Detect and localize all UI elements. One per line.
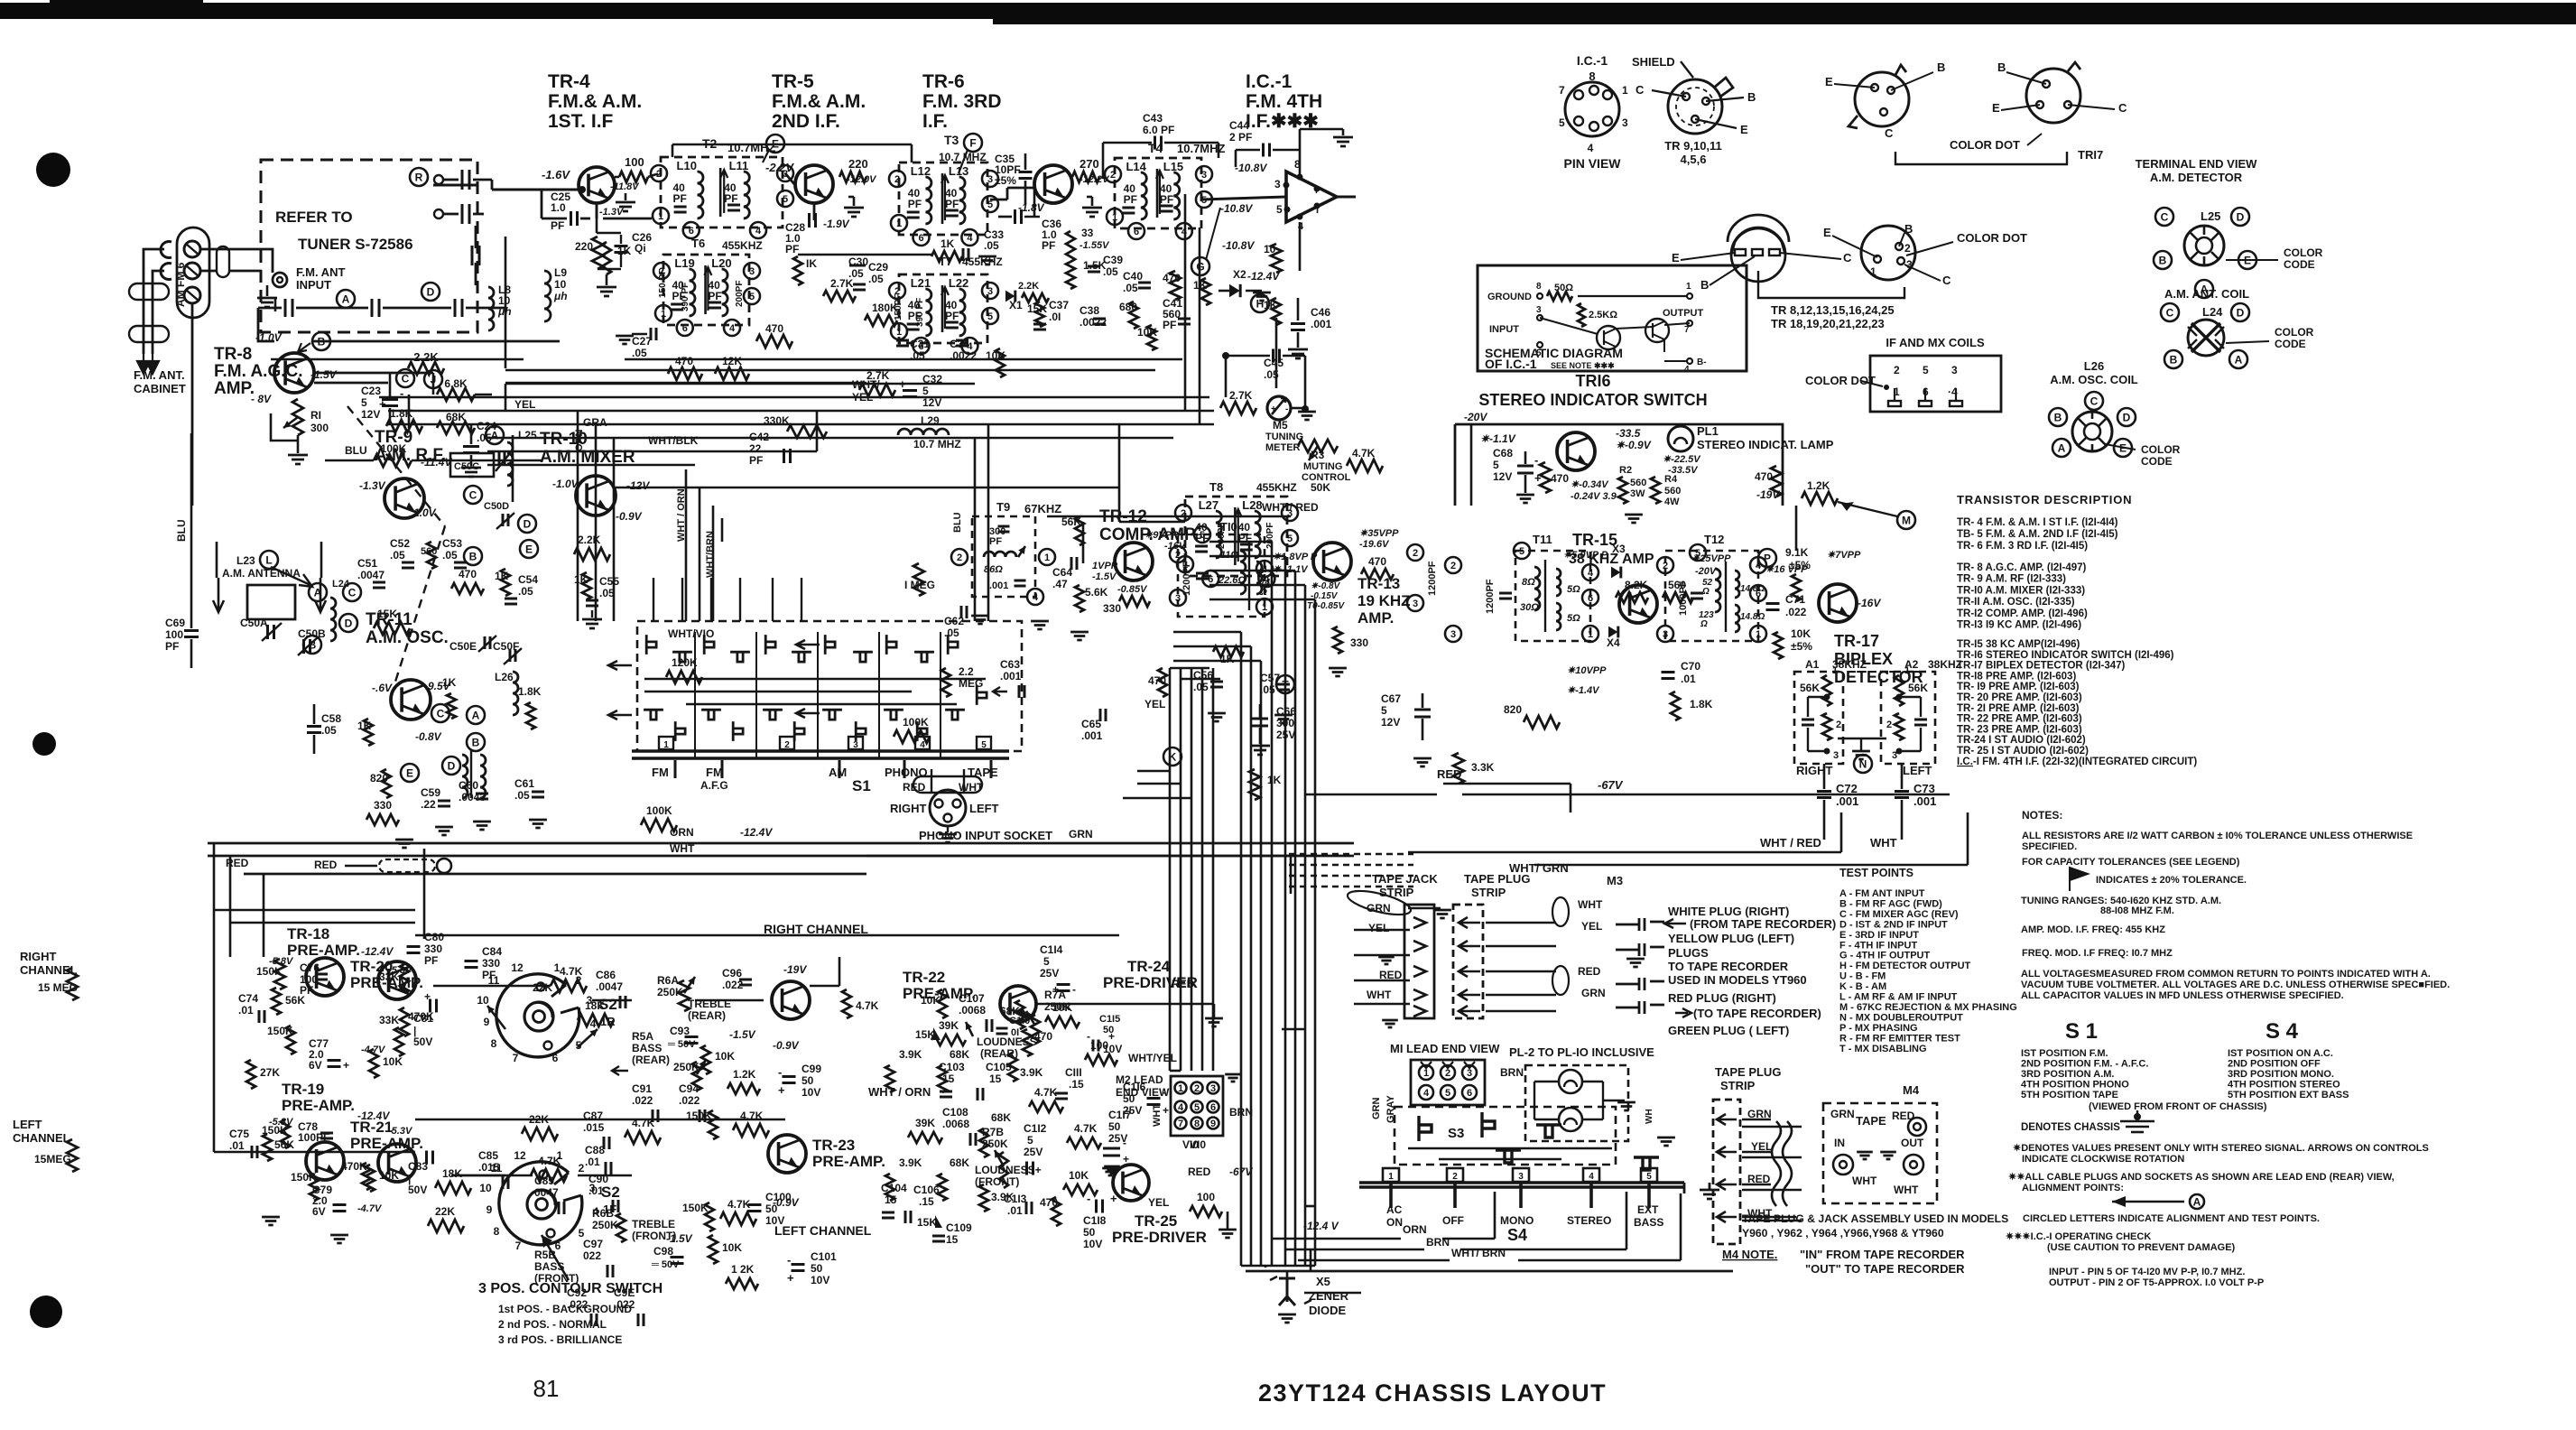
svg-text:COLOR: COLOR <box>2284 246 2323 259</box>
svg-text:COLOR DOT: COLOR DOT <box>1805 374 1876 387</box>
svg-text:✷-0.9V: ✷-0.9V <box>1616 439 1652 451</box>
chassis symbol <box>2134 1113 2141 1120</box>
svg-text:COLOR: COLOR <box>2275 326 2314 339</box>
svg-text:4: 4 <box>1684 365 1690 375</box>
strip2 wires <box>1742 1119 1771 1120</box>
svg-text:✷10VPP: ✷10VPP <box>1567 665 1607 676</box>
svg-text:CODE: CODE <box>2141 455 2173 468</box>
svg-text:CABINET: CABINET <box>134 382 186 395</box>
svg-text:TR-I7 BIPLEX DETECTOR (I2I-3: TR-I7 BIPLEX DETECTOR (I2I-347) <box>1957 661 2126 672</box>
IC1 box pin4 <box>1687 358 1692 364</box>
svg-text:S 1: S 1 <box>2065 1019 2098 1044</box>
long bus WHT <box>208 855 1354 858</box>
svg-text:EXT: EXT <box>1637 1203 1659 1216</box>
svg-text:TUNING: TUNING <box>1265 432 1303 442</box>
svg-text:-12.4V: -12.4V <box>361 945 394 958</box>
transistor TR-24 <box>1000 986 1036 1022</box>
A ground mid <box>1852 751 1870 759</box>
S1 strip bar <box>632 749 1009 753</box>
svg-text:C65: C65 <box>1081 718 1101 730</box>
wire tone bus 2 <box>451 1175 533 1177</box>
TR 8 group bracket <box>1758 271 1904 298</box>
T11 pins <box>1514 543 1530 559</box>
svg-text:390 PF: 390 PF <box>681 283 690 311</box>
svg-text:E: E <box>1672 251 1680 265</box>
wire top input <box>433 184 478 187</box>
ground under R1 <box>297 435 300 453</box>
svg-text:M4: M4 <box>1903 1083 1920 1097</box>
svg-text:COLOR: COLOR <box>2141 443 2181 456</box>
svg-text:10: 10 <box>554 278 567 291</box>
svg-text:C: C <box>2118 101 2127 115</box>
svg-text:TR-I0 A.M. MIXER (I2I-333): TR-I0 A.M. MIXER (I2I-333) <box>1957 585 2085 596</box>
svg-text:18K: 18K <box>442 1167 462 1180</box>
svg-text:.05: .05 <box>984 239 999 252</box>
svg-text:S4: S4 <box>1507 1226 1527 1244</box>
svg-text:L9: L9 <box>554 266 567 279</box>
svg-text:1: 1 <box>663 740 669 750</box>
L24 labels <box>2161 303 2179 321</box>
svg-text:2: 2 <box>1886 720 1892 730</box>
wire mid vertical f <box>712 506 715 621</box>
svg-text:-4.7V: -4.7V <box>357 1203 383 1214</box>
svg-text:PF: PF <box>165 640 179 653</box>
circled A osc <box>467 706 485 724</box>
tape jack strip box <box>1404 905 1434 1018</box>
svg-text:OFF: OFF <box>1442 1214 1464 1227</box>
svg-text:TR- 20 PRE AMP. (I2I-603): TR- 20 PRE AMP. (I2I-603) <box>1957 692 2082 703</box>
svg-text:TR-24: TR-24 <box>1127 958 1171 975</box>
svg-text:14.8Ω: 14.8Ω <box>1740 584 1765 594</box>
svg-text:TUNER S-72586: TUNER S-72586 <box>298 236 413 253</box>
svg-text:022: 022 <box>583 1249 601 1262</box>
svg-text:YEL: YEL <box>514 398 535 411</box>
svg-text:INPUT: INPUT <box>1489 324 1519 335</box>
svg-text:2: 2 <box>579 1162 585 1175</box>
svg-text:Y960 , Y962 , Y964 ,Y966,Y968: Y960 , Y962 , Y964 ,Y966,Y968 & YT960 <box>1742 1227 1944 1240</box>
wire drop x1240 <box>1118 424 1121 487</box>
svg-text:AC: AC <box>1386 1203 1403 1216</box>
ground TR10 <box>591 610 593 617</box>
svg-text:I.F.: I.F. <box>922 111 948 132</box>
svg-text:2: 2 <box>1110 170 1116 181</box>
svg-text:68K: 68K <box>950 1156 969 1169</box>
svg-text:.05: .05 <box>1123 282 1138 294</box>
svg-text:10V: 10V <box>811 1274 829 1286</box>
S1 tab 4 <box>915 737 930 749</box>
svg-text:3: 3 <box>1467 1068 1472 1079</box>
svg-text:7: 7 <box>1178 1119 1183 1129</box>
svg-text:1200PF: 1200PF <box>1181 561 1192 596</box>
svg-text:C: C <box>2161 211 2169 224</box>
svg-text:.05: .05 <box>442 549 458 562</box>
svg-text:OUTPUT: OUTPUT <box>1663 308 1704 319</box>
svg-text:BASS: BASS <box>632 1042 662 1054</box>
S1 pin stubs <box>674 760 677 778</box>
svg-text:C: C <box>402 373 410 385</box>
svg-text:R5B: R5B <box>534 1249 556 1261</box>
circled G <box>1191 257 1209 275</box>
svg-text:2ND I.F.: 2ND I.F. <box>772 111 840 132</box>
svg-text:"IN" FROM TAPE RECORDER: "IN" FROM TAPE RECORDER <box>1800 1248 1965 1261</box>
circled D node <box>422 283 440 301</box>
svg-text:I.C.-1: I.C.-1 <box>1246 71 1293 92</box>
L26 letters <box>2049 408 2067 426</box>
wire IC1 down <box>1299 222 1302 271</box>
svg-text:C106: C106 <box>913 1184 940 1196</box>
wire T2 to TR-5 <box>785 173 794 184</box>
svg-text:1.8K: 1.8K <box>1690 698 1713 710</box>
L24 ant coil <box>2188 320 2224 356</box>
svg-text:-0.9V: -0.9V <box>773 1039 800 1052</box>
svg-text:Ω: Ω <box>1259 588 1267 598</box>
S1 tab 3 <box>848 737 863 749</box>
S3 gnd <box>1657 1137 1675 1146</box>
svg-text:100: 100 <box>625 155 644 169</box>
svg-text:470: 470 <box>459 568 477 580</box>
wire long mid band3 <box>487 437 1173 440</box>
svg-text:FOR CAPACITY TOLERANCES (SEE L: FOR CAPACITY TOLERANCES (SEE LEGEND) <box>2022 857 2240 868</box>
svg-text:(REAR): (REAR) <box>688 1009 726 1022</box>
svg-text:TR-8: TR-8 <box>214 345 252 364</box>
circled A node <box>337 290 355 308</box>
svg-text:B - FM RF AGC (FWD): B - FM RF AGC (FWD) <box>1839 898 1942 909</box>
svg-text:CODE: CODE <box>2284 258 2315 271</box>
circled A C50C <box>486 426 504 444</box>
svg-text:3: 3 <box>1175 593 1181 604</box>
T9 pin2 <box>951 549 968 565</box>
svg-text:-: - <box>1285 404 1288 414</box>
svg-text:TR-17: TR-17 <box>1834 632 1879 650</box>
M3 oval bottom <box>1552 966 1569 995</box>
svg-text:TI0: TI0 <box>1220 520 1237 534</box>
svg-text:22K: 22K <box>533 981 552 994</box>
shield socket circle <box>1668 79 1722 134</box>
wire hband y500 <box>487 450 817 453</box>
M1 pins <box>1419 1065 1433 1080</box>
S4 strip bar <box>1359 1181 1684 1184</box>
svg-text:3RD POSITION MONO.: 3RD POSITION MONO. <box>2228 1069 2334 1080</box>
svg-text:10K: 10K <box>379 1169 399 1182</box>
input jack right <box>379 859 435 872</box>
svg-text:-0.8V: -0.8V <box>415 730 442 743</box>
svg-text:200PF: 200PF <box>1265 523 1275 549</box>
svg-text:RED: RED <box>1437 767 1461 781</box>
svg-text:12V: 12V <box>1493 470 1512 483</box>
M2 grid box <box>1171 1076 1223 1136</box>
svg-text:-10.8V: -10.8V <box>1220 202 1253 215</box>
svg-text:6: 6 <box>689 226 694 237</box>
svg-text:C1I8: C1I8 <box>1083 1214 1107 1227</box>
svg-text:F.M. 4TH: F.M. 4TH <box>1246 91 1322 112</box>
alignment arrow <box>2112 1201 2184 1203</box>
ground TR25 <box>1219 1230 1237 1238</box>
svg-text:BASS: BASS <box>534 1260 564 1273</box>
S1 matrix wires <box>644 678 986 680</box>
svg-text:8: 8 <box>1536 282 1542 292</box>
binder punch hole top <box>36 153 70 187</box>
svg-text:.0068: .0068 <box>942 1118 969 1130</box>
svg-text:-20V: -20V <box>1464 411 1487 423</box>
svg-text:C75: C75 <box>229 1128 249 1140</box>
wire tr22 collector <box>810 985 839 988</box>
svg-text:STRIP: STRIP <box>1379 886 1414 899</box>
svg-text:STEREO INDICATOR SWITCH: STEREO INDICATOR SWITCH <box>1478 391 1707 409</box>
wire tr8 to bus <box>314 382 388 385</box>
svg-text:1: 1 <box>1044 552 1050 563</box>
svg-text:WHT / RED: WHT / RED <box>1262 501 1319 514</box>
wire bottom bus IF2 <box>505 369 1155 372</box>
svg-text:PF: PF <box>749 454 763 467</box>
svg-text:TO TAPE RECORDER: TO TAPE RECORDER <box>1668 960 1789 973</box>
S3 wires <box>1408 1147 1612 1149</box>
svg-text:S1: S1 <box>852 777 871 794</box>
svg-text:TR-I3 I9 KC AMP. (I2I-496): TR-I3 I9 KC AMP. (I2I-496) <box>1957 620 2081 631</box>
svg-text:E: E <box>1740 123 1748 136</box>
svg-text:.015: .015 <box>583 1121 605 1134</box>
svg-text:-10.8V: -10.8V <box>1222 239 1255 252</box>
svg-text:-10.8V: -10.8V <box>1235 162 1267 174</box>
svg-text:3: 3 <box>987 174 993 185</box>
svg-text:PF: PF <box>1163 319 1176 331</box>
svg-text:PF: PF <box>424 954 438 967</box>
svg-text:-: - <box>1123 1137 1126 1149</box>
M5 tuning meter <box>1267 396 1291 420</box>
vertical drop TR10 col <box>1082 522 1085 563</box>
svg-text:5TH POSITION TAPE: 5TH POSITION TAPE <box>2021 1090 2118 1100</box>
svg-text:3.9K: 3.9K <box>899 1048 922 1061</box>
svg-text:50K: 50K <box>1311 481 1330 494</box>
svg-text:1: 1 <box>1588 629 1593 640</box>
svg-text:TR- 6 F.M. 3 RD I.F. (I2I-4I5: TR- 6 F.M. 3 RD I.F. (I2I-4I5) <box>1957 541 2088 552</box>
svg-text:ALL CAPACITOR VALUES IN MFD UN: ALL CAPACITOR VALUES IN MFD UNLESS OTHER… <box>2021 990 2344 1001</box>
svg-text:COLOR DOT: COLOR DOT <box>1957 231 2027 245</box>
cable oval <box>1346 887 1413 920</box>
svg-text:5: 5 <box>1287 534 1293 544</box>
svg-text:10V: 10V <box>802 1086 820 1099</box>
svg-text:C1I4: C1I4 <box>1040 943 1063 956</box>
svg-text:MUTING: MUTING <box>1303 461 1342 472</box>
T9 box <box>972 516 1035 597</box>
svg-text:1 2K: 1 2K <box>731 1263 755 1276</box>
svg-text:330: 330 <box>482 957 500 970</box>
svg-text:TR 9,10,11: TR 9,10,11 <box>1664 139 1722 153</box>
IF MX tabs <box>1888 401 1901 406</box>
svg-text:470: 470 <box>1034 1030 1052 1043</box>
svg-text:TRI6: TRI6 <box>1575 372 1610 390</box>
svg-text:C1I3: C1I3 <box>1004 1193 1027 1205</box>
svg-text:CIRCLED LETTERS INDICATE ALIGN: CIRCLED LETTERS INDICATE ALIGNMENT AND T… <box>2023 1213 2320 1224</box>
svg-text:L26: L26 <box>2084 359 2104 373</box>
wire TR-4 to T2 <box>656 173 658 176</box>
svg-text:6: 6 <box>1588 593 1593 604</box>
svg-text:1st POS. - BACKGROUND: 1st POS. - BACKGROUND <box>498 1303 632 1315</box>
svg-text:METER: METER <box>1265 442 1301 453</box>
svg-text:D: D <box>345 617 353 630</box>
S3 dashed box <box>1395 1107 1616 1165</box>
transformer T4 <box>1115 158 1201 228</box>
svg-text:IF AND MX COILS: IF AND MX COILS <box>1886 336 1985 349</box>
svg-text:+: + <box>1271 404 1276 414</box>
T11 box <box>1515 551 1590 641</box>
svg-text:F.M.& A.M.: F.M.& A.M. <box>772 91 866 112</box>
svg-text:A - FM ANT INPUT: A - FM ANT INPUT <box>1839 888 1925 899</box>
svg-text:S 4: S 4 <box>2266 1019 2299 1044</box>
circled B mid2 <box>464 547 482 565</box>
svg-text:1: 1 <box>658 211 663 222</box>
svg-text:BLU: BLU <box>952 512 963 533</box>
svg-text:TAPE JACK: TAPE JACK <box>1372 872 1438 886</box>
svg-text:6: 6 <box>1208 574 1213 585</box>
svg-text:PL1: PL1 <box>1697 424 1719 438</box>
svg-text:LEFT: LEFT <box>969 802 999 815</box>
wire input to TR-4 <box>492 189 579 191</box>
svg-text:C50E: C50E <box>449 640 477 653</box>
T10 box <box>1178 534 1265 617</box>
wire mid vertical e <box>699 487 701 621</box>
T10 pin1 <box>1256 599 1273 615</box>
wire tone bus 1 <box>433 985 551 988</box>
wire -67V bus <box>1462 794 1950 796</box>
T10 pin2 <box>1170 546 1186 562</box>
svg-text:.001: .001 <box>1081 729 1103 742</box>
wire long 67v <box>1304 794 1437 796</box>
svg-text:+: + <box>778 1083 785 1097</box>
svg-text:+: + <box>379 397 386 411</box>
svg-text:C55: C55 <box>599 575 619 588</box>
M4 jack out <box>1904 1155 1923 1175</box>
svg-text:A: A <box>491 430 499 442</box>
T10 pin5 <box>1194 526 1210 543</box>
svg-text:C74: C74 <box>238 992 258 1005</box>
svg-text:100K: 100K <box>646 804 672 817</box>
svg-text:B-: B- <box>1697 357 1707 367</box>
wire drop x905 <box>816 411 819 451</box>
svg-text:-16V: -16V <box>1858 597 1881 609</box>
svg-text:15K: 15K <box>917 1216 937 1229</box>
wire C25 to T2 pin1 <box>603 218 652 220</box>
svg-text:.05: .05 <box>321 724 337 737</box>
svg-text:7: 7 <box>1684 325 1690 335</box>
svg-text:±5%: ±5% <box>995 174 1016 187</box>
svg-text:5: 5 <box>783 194 788 205</box>
svg-text:E: E <box>1825 75 1833 88</box>
L25 detector coil <box>2184 226 2224 265</box>
svg-text:.05: .05 <box>1260 683 1275 696</box>
svg-text:1: 1 <box>896 218 902 229</box>
transistor TR-10 <box>576 476 616 515</box>
svg-text:TR-18: TR-18 <box>287 925 329 942</box>
svg-text:33K: 33K <box>379 1014 399 1026</box>
svg-text:MI LEAD END VIEW: MI LEAD END VIEW <box>1390 1042 1500 1055</box>
svg-text:-11.8V: -11.8V <box>610 181 640 192</box>
svg-text:C1I7: C1I7 <box>1108 1109 1132 1121</box>
svg-text:VACUUM TUBE VOLTMETER. ALL VO: VACUUM TUBE VOLTMETER. ALL VOLTAGES ARE … <box>2021 980 2450 990</box>
svg-text:WHT: WHT <box>1870 836 1897 850</box>
svg-text:WHT: WHT <box>959 781 984 794</box>
svg-text:B: B <box>472 737 480 749</box>
svg-text:C31: C31 <box>910 338 930 350</box>
svg-text:R5A: R5A <box>632 1030 653 1043</box>
TR-8 transistor <box>274 353 314 393</box>
svg-text:AMP.: AMP. <box>214 379 255 398</box>
svg-text:12: 12 <box>511 961 524 974</box>
svg-text:PIN VIEW: PIN VIEW <box>1563 156 1621 171</box>
wire stereo top <box>1470 424 1473 506</box>
svg-text:YEL: YEL <box>1581 920 1602 933</box>
M3 wires <box>1486 922 1556 924</box>
T9 pin4 <box>1027 589 1043 605</box>
RED bus right <box>1443 783 1571 785</box>
long wire to tape area <box>866 855 1291 858</box>
svg-text:67KHZ: 67KHZ <box>1024 502 1061 515</box>
ground T8 <box>1208 713 1226 721</box>
svg-text:4.7K: 4.7K <box>856 999 879 1012</box>
svg-text:1: 1 <box>1686 282 1691 292</box>
svg-text:-0.85V: -0.85V <box>1117 584 1148 595</box>
svg-text:68K: 68K <box>950 1048 969 1061</box>
svg-text:A.M. DETECTOR: A.M. DETECTOR <box>2150 171 2243 184</box>
svg-text:AM FM 6: AM FM 6 <box>174 262 187 307</box>
svg-text:VI0: VI0 <box>1182 1138 1199 1151</box>
svg-text:-67V: -67V <box>1598 778 1624 792</box>
svg-text:WHT: WHT <box>1578 898 1603 911</box>
svg-text:C94: C94 <box>679 1082 699 1095</box>
binder punch hole bottom <box>30 1295 62 1328</box>
svg-text:3: 3 <box>749 266 755 277</box>
dashed mechanical link <box>347 406 445 526</box>
tuner caps bottom row <box>285 299 292 317</box>
svg-text:-2.2V: -2.2V <box>765 161 794 174</box>
wire mid vertical d <box>685 469 688 621</box>
svg-text:+: + <box>1052 983 1059 996</box>
svg-text:1.0: 1.0 <box>551 201 566 214</box>
svg-text:TR-I6 STEREO INDICATOR SWITCH: TR-I6 STEREO INDICATOR SWITCH (I2I-496) <box>1957 650 2174 661</box>
svg-text:-1.5V: -1.5V <box>1092 571 1117 582</box>
svg-text:B: B <box>2159 255 2167 267</box>
wire mid vertical b <box>595 424 598 621</box>
svg-text:T9: T9 <box>996 500 1010 514</box>
S1 tab 5 <box>977 737 991 749</box>
svg-text:TR- 22 PRE AMP. (I2I-603): TR- 22 PRE AMP. (I2I-603) <box>1957 714 2082 725</box>
svg-text:-19V: -19V <box>783 963 807 976</box>
svg-text:5: 5 <box>1493 459 1499 471</box>
transistor TR-12 <box>1115 543 1153 580</box>
svg-text:TAPE: TAPE <box>1856 1114 1886 1128</box>
svg-text:1: 1 <box>1904 665 1910 676</box>
svg-text:F: F <box>969 137 976 150</box>
A1 dashed box <box>1794 672 1843 764</box>
T10 pin4 <box>1256 561 1273 577</box>
svg-text:D: D <box>427 286 435 299</box>
svg-text:+: + <box>1163 1104 1169 1117</box>
circled B osc <box>467 733 485 751</box>
svg-text:L21: L21 <box>911 276 931 290</box>
svg-text:RIGHT: RIGHT <box>1796 764 1833 777</box>
M1 box <box>1411 1060 1485 1105</box>
svg-text:-12.4V: -12.4V <box>1247 270 1280 283</box>
svg-text:GRN: GRN <box>1371 1098 1382 1120</box>
svg-text:PF: PF <box>1042 239 1055 252</box>
svg-text:IST POSITION F.M.: IST POSITION F.M. <box>2021 1048 2108 1059</box>
svg-text:P: P <box>1764 552 1771 565</box>
svg-text:4: 4 <box>1588 568 1594 579</box>
svg-text:T8: T8 <box>1209 480 1223 494</box>
svg-text:+: + <box>787 1271 794 1285</box>
circled D mid2 <box>518 515 536 533</box>
ground TR-5 <box>848 196 854 199</box>
svg-text:TR-21: TR-21 <box>350 1119 393 1136</box>
